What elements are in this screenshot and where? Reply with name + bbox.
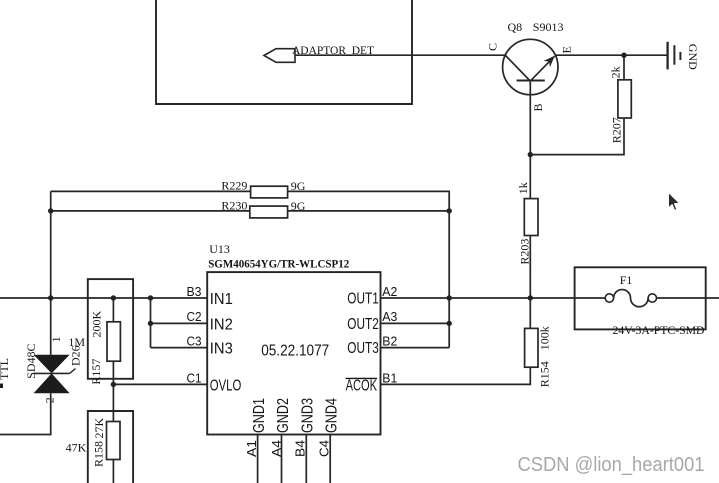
svg-text:TTL: TTL xyxy=(0,358,11,380)
svg-text:CSDN @lion_heart001: CSDN @lion_heart001 xyxy=(518,453,705,476)
svg-text:2: 2 xyxy=(42,397,56,403)
svg-text:C3: C3 xyxy=(187,335,202,349)
mouse cursor xyxy=(668,192,680,211)
svg-text:R154: R154 xyxy=(537,361,551,387)
svg-text:ACOK: ACOK xyxy=(346,377,378,394)
svg-text:S9013: S9013 xyxy=(533,20,564,34)
svg-text:GND: GND xyxy=(686,44,700,70)
svg-text:SD48C: SD48C xyxy=(24,343,38,378)
svg-text:R203: R203 xyxy=(517,239,531,265)
svg-text:E: E xyxy=(560,46,574,53)
junction IN2 branch xyxy=(148,321,153,326)
junction row1/R157 xyxy=(111,295,116,300)
wire ADAPTOR_DET net xyxy=(295,54,505,56)
wire OUT2 stub xyxy=(381,322,450,324)
wire R230 left xyxy=(51,210,250,212)
wire OVLO net xyxy=(113,383,207,385)
svg-text:Q8: Q8 xyxy=(508,20,523,34)
svg-text:B3: B3 xyxy=(187,285,202,299)
svg-text:SGM40654YG/TR-WLCSP12: SGM40654YG/TR-WLCSP12 xyxy=(208,256,349,270)
wire ACOK net xyxy=(381,367,531,384)
overline of ACOK xyxy=(346,377,378,379)
transistor Q8 xyxy=(503,39,558,94)
svg-text:GND1: GND1 xyxy=(251,398,268,433)
fuse F1 box xyxy=(575,267,706,329)
wire diode bottom to left edge xyxy=(0,393,51,434)
wire GND2 pin xyxy=(281,435,283,483)
wire IN3 stub xyxy=(151,347,208,349)
svg-text:R207: R207 xyxy=(610,117,624,143)
svg-text:A1: A1 xyxy=(245,440,259,457)
wire IN2/IN3 branch vertical xyxy=(150,298,152,348)
variant box around R158 xyxy=(88,411,133,483)
svg-text:D26: D26 xyxy=(68,345,82,366)
hierarchical block border (top box) xyxy=(156,0,412,104)
junction row1/IN2 branch xyxy=(148,295,153,300)
svg-text:OUT1: OUT1 xyxy=(347,291,379,308)
wire OUT1 net to fuse xyxy=(381,297,606,299)
wire R229 right xyxy=(288,191,450,211)
resistor R158 xyxy=(107,422,121,460)
resistor R207 xyxy=(618,80,631,118)
edge mark xyxy=(0,384,3,389)
wire left vertical net xyxy=(50,191,52,354)
svg-text:R229: R229 xyxy=(221,179,247,193)
diode D26 xyxy=(34,355,76,394)
wire fuse right to edge xyxy=(657,297,719,299)
svg-text:A2: A2 xyxy=(382,285,397,299)
junction OUT1/R203 xyxy=(528,295,533,300)
svg-text:A3: A3 xyxy=(382,310,397,324)
svg-text:GND3: GND3 xyxy=(300,398,317,433)
svg-text:C2: C2 xyxy=(187,310,202,324)
junction at base node xyxy=(528,152,533,157)
svg-text:27K: 27K xyxy=(92,418,106,439)
wire R229 left xyxy=(51,190,251,192)
junction R230/vertical xyxy=(447,208,452,213)
wire GND1 pin xyxy=(257,435,259,483)
wire GND3 pin xyxy=(305,435,307,483)
svg-text:1k: 1k xyxy=(516,182,530,194)
wire R203 to OUT1 node xyxy=(529,236,531,299)
port symbol ADAPTOR_DET xyxy=(264,49,295,63)
svg-text:U13: U13 xyxy=(209,242,230,256)
svg-text:C: C xyxy=(486,43,500,51)
svg-text:C1: C1 xyxy=(187,371,202,385)
svg-text:IN2: IN2 xyxy=(210,316,233,333)
wire base of Q8 down xyxy=(529,81,531,199)
wire IN2 stub xyxy=(151,322,208,324)
resistor R229 xyxy=(251,186,288,198)
svg-text:100k: 100k xyxy=(537,326,551,350)
svg-text:2k: 2k xyxy=(608,66,622,78)
svg-text:R158: R158 xyxy=(92,441,106,467)
ground GND xyxy=(668,42,681,70)
wire R157 top lead xyxy=(112,298,114,322)
junction row1/left vertical xyxy=(48,295,53,300)
svg-text:24V-3A-PTC-SMD: 24V-3A-PTC-SMD xyxy=(613,323,705,337)
svg-text:OUT3: OUT3 xyxy=(347,340,379,357)
wire R158 top lead xyxy=(112,384,114,421)
junction OUT1/vertical bus xyxy=(447,295,452,300)
wire row1 IN1 net xyxy=(0,297,207,299)
wire R207 branch xyxy=(530,55,624,154)
wire R230 right xyxy=(288,210,450,212)
wire OUT3 stub xyxy=(381,347,450,349)
svg-text:R157: R157 xyxy=(89,359,103,385)
svg-text:B: B xyxy=(531,103,545,111)
variant box around R157 xyxy=(88,279,133,379)
fuse F1 symbol xyxy=(605,290,656,307)
resistor R154 xyxy=(525,328,538,367)
wire vertical bus right xyxy=(448,211,450,348)
junction OVLO/R157 xyxy=(111,382,116,387)
svg-text:GND2: GND2 xyxy=(275,398,292,433)
wire emitter to ground xyxy=(555,54,667,56)
svg-text:B2: B2 xyxy=(382,335,397,349)
svg-text:B4: B4 xyxy=(294,440,308,457)
svg-text:GND4: GND4 xyxy=(324,398,341,433)
junction R230 left xyxy=(48,208,53,213)
junction at emitter/R207 xyxy=(621,53,626,58)
junction OUT2/vertical bus xyxy=(447,321,452,326)
wire R157 bottom lead xyxy=(112,361,114,384)
svg-text:200K: 200K xyxy=(90,311,104,338)
resistor R230 xyxy=(250,206,288,218)
svg-text:05.22.1077: 05.22.1077 xyxy=(261,343,329,360)
wire R158 bottom lead xyxy=(112,460,114,483)
svg-text:B1: B1 xyxy=(382,371,397,385)
svg-text:47K: 47K xyxy=(66,441,87,455)
svg-text:OUT2: OUT2 xyxy=(347,316,379,333)
IC U13 body xyxy=(207,272,380,434)
svg-text:ADAPTOR_DET: ADAPTOR_DET xyxy=(292,43,375,57)
resistor R203 xyxy=(524,199,538,236)
wire R154 top lead xyxy=(529,298,531,328)
svg-text:OVLO: OVLO xyxy=(210,377,242,394)
wire GND4 pin xyxy=(329,435,331,483)
svg-text:R230: R230 xyxy=(221,198,247,212)
svg-text:IN3: IN3 xyxy=(210,341,233,358)
svg-text:IN1: IN1 xyxy=(210,291,233,308)
svg-text:1: 1 xyxy=(49,336,63,342)
svg-text:F1: F1 xyxy=(620,273,633,287)
resistor R157 xyxy=(107,322,120,361)
